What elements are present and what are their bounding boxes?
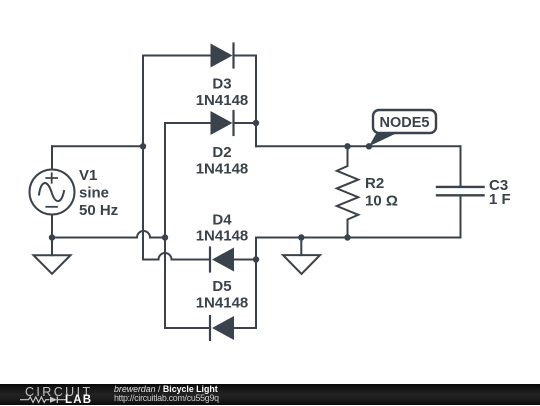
CircuitLab logo LAB (65, 394, 92, 406)
svg-text:D4: D4 (212, 212, 232, 229)
wire output vertical (255, 56, 257, 147)
svg-text:V1: V1 (79, 167, 97, 184)
footer bar (0, 384, 540, 405)
ground left (34, 238, 71, 274)
node flag NODE5 (369, 110, 436, 146)
label R2 10 ohm (365, 175, 398, 210)
svg-text:1N4148: 1N4148 (196, 228, 249, 245)
wire net A to D4 with hop (143, 253, 210, 260)
svg-text:1N4148: 1N4148 (196, 294, 249, 311)
wire bottom net vertical (255, 238, 257, 329)
svg-text:R2: R2 (365, 175, 384, 192)
svg-text:NODE5: NODE5 (380, 115, 430, 131)
wire V1 top lead (51, 146, 53, 169)
diode D3 (211, 44, 257, 68)
svg-text:D2: D2 (212, 144, 231, 161)
ground right (283, 238, 320, 274)
svg-text:D5: D5 (212, 278, 231, 295)
svg-text:10 Ω: 10 Ω (365, 193, 398, 210)
wire D3 anode feed (143, 55, 211, 57)
node V1 minus junction (49, 234, 55, 240)
label D3 1N4148 (196, 75, 249, 109)
svg-text:50 Hz: 50 Hz (79, 202, 118, 219)
footer url text (114, 393, 219, 403)
resistor R2 (337, 146, 359, 237)
wire vertical net B (164, 123, 166, 328)
node R2 top junction (344, 143, 350, 149)
node D4/D5 anode junction (253, 256, 259, 262)
svg-text:1N4148: 1N4148 (196, 92, 249, 109)
wire V1 minus to net B with hop (52, 231, 165, 237)
node net B junction (162, 234, 168, 240)
diode D5 (210, 316, 256, 340)
diode D2 (211, 111, 257, 135)
node NODE5 anchor (366, 143, 372, 149)
wire V1 plus to junction (52, 145, 143, 147)
CircuitLab logo schematic line (18, 395, 68, 405)
svg-text:1 F: 1 F (489, 191, 511, 208)
wire bottom rail (256, 237, 461, 239)
label C3 1 F (489, 177, 511, 208)
wire output rail (256, 145, 461, 147)
voltage source V1 (30, 170, 75, 215)
svg-text:sine: sine (79, 185, 109, 202)
label D4 1N4148 (196, 212, 249, 245)
label V1 sine 50 Hz (79, 167, 118, 219)
diode D4 (210, 248, 256, 272)
footer title text (114, 384, 218, 394)
node D2/D3 cathode junction (253, 120, 259, 126)
node junction V1+ (140, 143, 146, 149)
wire D5 anode feed (165, 327, 210, 329)
capacitor C3 (437, 146, 484, 237)
node R2 bottom junction (344, 234, 350, 240)
label D5 1N4148 (196, 278, 249, 311)
label D2 1N4148 (196, 144, 249, 178)
wire D2 anode feed (165, 122, 211, 124)
wire vertical net A (142, 56, 144, 260)
wire V1 bottom lead (51, 215, 53, 238)
CircuitLab logo CIRCUIT (25, 385, 93, 399)
svg-text:1N4148: 1N4148 (196, 161, 249, 178)
node ground rail junction (298, 234, 304, 240)
svg-text:D3: D3 (212, 75, 231, 92)
